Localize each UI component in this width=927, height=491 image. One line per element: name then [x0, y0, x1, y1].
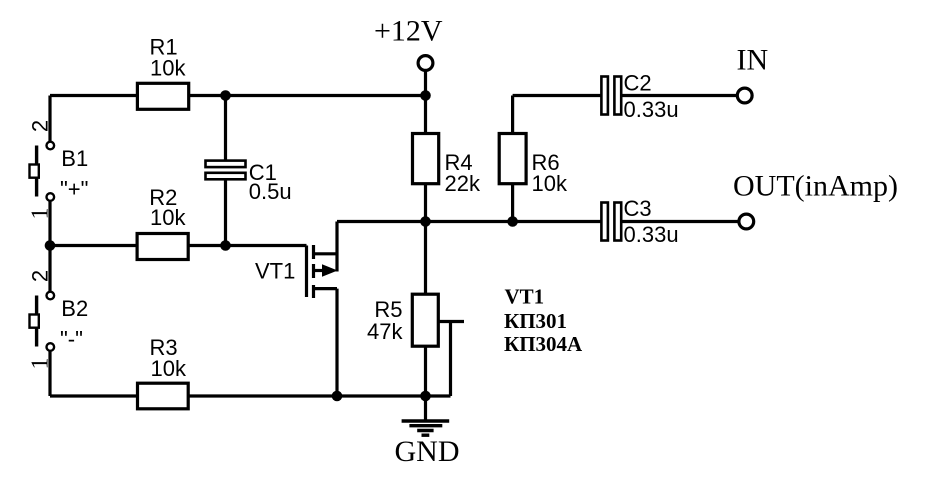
svg-text:2: 2 [27, 120, 52, 132]
junction node R6 bottom mid rail [507, 216, 518, 227]
wire R5 top lead [424, 222, 427, 295]
svg-text:C2: C2 [624, 71, 652, 96]
wire +12V terminal to top rail [424, 71, 427, 96]
wire left column down to B1 pin 2 [48, 96, 51, 142]
svg-text:1: 1 [27, 208, 53, 220]
capacitor C2 right plate [614, 77, 621, 115]
label R3 [150, 335, 187, 381]
transistor VT1 channel segment drain [312, 245, 315, 259]
wire top rail from B1 to +12V node [50, 94, 426, 97]
label R5 [367, 297, 403, 344]
wire GND stem [424, 396, 427, 420]
label R4 [445, 150, 481, 196]
label C3 [624, 196, 679, 247]
wire R6 bottom lead [511, 184, 514, 222]
svg-text:1: 1 [27, 358, 53, 370]
label B1 [60, 146, 88, 202]
wire C1 bottom lead [224, 179, 227, 246]
svg-text:GND: GND [395, 435, 460, 468]
junction node B1/B2/R2 left [45, 240, 56, 251]
svg-text:2: 2 [27, 270, 52, 282]
wire B1 pin 1 down past R2 junction to B2 pin 2 [48, 201, 51, 292]
pushbutton B1 contact pin 1 [47, 193, 55, 201]
junction node +12V rail [420, 90, 431, 101]
svg-text:VT1: VT1 [255, 259, 295, 284]
annotation VT1 part numbers [504, 285, 583, 357]
transistor VT1 bulk lead with arrow [314, 264, 338, 276]
junction node VT1 source bottom rail [332, 391, 343, 402]
wire C2 right plate to IN terminal [621, 94, 737, 97]
svg-text:0.33u: 0.33u [624, 222, 679, 247]
svg-text:C3: C3 [624, 196, 652, 221]
svg-text:"+": "+" [60, 177, 88, 202]
pushbutton B1 actuator bar [35, 146, 38, 197]
svg-text:10k: 10k [150, 205, 186, 230]
junction node GND bottom rail [420, 391, 431, 402]
label R1 [150, 35, 187, 81]
label C1 [249, 160, 292, 204]
wire bottom rail from B2 through R3 to R5 tap drop [50, 394, 451, 397]
terminal OUT [739, 214, 754, 229]
capacitor C1 bottom plate [206, 173, 246, 180]
terminal IN [737, 88, 752, 103]
wire R4 top lead [424, 96, 427, 134]
svg-text:VT1: VT1 [505, 285, 545, 309]
svg-text:+12V: +12V [374, 15, 443, 48]
pushbutton B2 actuator bar [35, 296, 38, 347]
svg-text:10k: 10k [150, 56, 186, 81]
transistor VT1 gate bar [305, 246, 308, 298]
svg-text:OUT(inAmp): OUT(inAmp) [733, 170, 898, 203]
wire VT1 drain lead horizontal [314, 252, 338, 255]
label R2 [149, 185, 186, 230]
wire B2 pin 1 down to bottom rail [48, 351, 51, 396]
svg-text:IN: IN [737, 44, 769, 77]
resistor R3 10k [138, 383, 189, 409]
transistor VT1 channel segment bulk [312, 264, 315, 278]
svg-text:B1: B1 [61, 146, 88, 171]
svg-text:"-": "-" [60, 327, 83, 352]
wire mid rail from VT1 drain to C3 left plate [337, 220, 602, 223]
transistor VT1 channel segment source [312, 285, 315, 298]
capacitor C3 left plate [601, 203, 608, 241]
pushbutton B2 contact pin 1 [47, 343, 55, 351]
resistor R4 22k [413, 134, 439, 184]
svg-text:22k: 22k [445, 171, 481, 196]
capacitor C1 top plate [206, 161, 246, 168]
svg-text:B2: B2 [61, 296, 88, 321]
ground symbol [402, 421, 450, 435]
pushbutton B1 contact pin 2 [47, 142, 55, 150]
junction node R1/C1 top [220, 90, 231, 101]
label R6 [532, 150, 568, 196]
junction node R4/R5 mid rail [420, 216, 431, 227]
svg-text:10k: 10k [151, 356, 187, 381]
wire C1 top lead [224, 96, 227, 162]
pushbutton B2 contact pin 2 [47, 292, 55, 300]
svg-text:0.33u: 0.33u [624, 97, 679, 122]
resistor R5 47k body [412, 294, 438, 346]
pushbutton B1 plunger [30, 165, 39, 178]
wire R4 bottom lead [424, 184, 427, 222]
capacitor C3 right plate [614, 203, 621, 241]
capacitor C2 left plate [601, 77, 608, 115]
terminal +12V [418, 56, 433, 71]
wire R5 bottom lead [424, 346, 427, 396]
wire R6 top lead [511, 96, 514, 134]
label B2 [60, 296, 88, 352]
label C2 [624, 71, 679, 123]
junction node C1 bottom / R2 [220, 240, 231, 251]
wire VT1 source lead horizontal [314, 287, 338, 290]
resistor R6 10k [499, 134, 526, 184]
wire R2 row from left column to VT1 gate [50, 244, 307, 247]
svg-text:10k: 10k [532, 171, 568, 196]
svg-text:0.5u: 0.5u [249, 179, 292, 204]
resistor R1 10k [137, 83, 188, 109]
resistor R2 10k [137, 234, 188, 260]
wire C2 row from R6 column to C2 left plate [513, 94, 602, 97]
svg-text:КП301: КП301 [504, 309, 567, 333]
svg-text:47k: 47k [367, 319, 403, 344]
wire R5 wiper drop to bottom rail [449, 322, 452, 397]
wire C3 right plate to OUT terminal [621, 220, 739, 223]
wire R5 wiper tap horizontal [438, 320, 464, 323]
wire VT1 drain vertical to mid rail [335, 222, 338, 272]
svg-text:КП304А: КП304А [504, 332, 583, 356]
pushbutton B2 plunger [30, 315, 39, 328]
wire VT1 source vertical to bottom rail [335, 289, 338, 396]
